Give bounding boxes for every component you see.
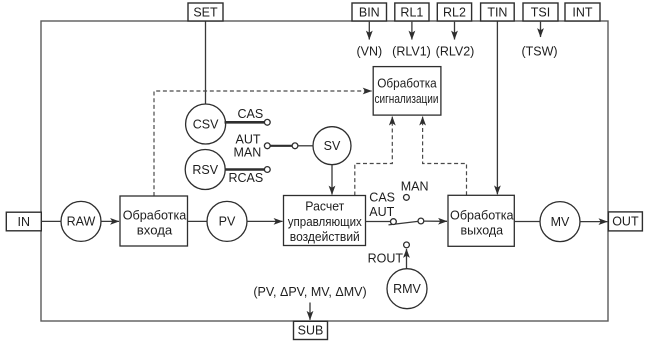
terminal box BIN (352, 3, 387, 21)
svg-text:MAN: MAN (234, 146, 262, 160)
wire pole to SV (298, 145, 313, 147)
svg-text:TIN: TIN (487, 5, 507, 19)
svg-text:RCAS: RCAS (229, 171, 264, 185)
svg-text:CAS: CAS (369, 190, 395, 204)
svg-text:Обработка: Обработка (377, 76, 437, 91)
arrow RMV to ROUT contact (406, 249, 408, 269)
switch wiper (upper, engaged AUT/MAN) (270, 145, 292, 147)
svg-text:(PV, ΔPV, MV, ΔMV): (PV, ΔPV, MV, ΔMV) (253, 285, 366, 299)
svg-text:SV: SV (324, 139, 341, 153)
terminal box TIN (481, 3, 515, 21)
terminal box RL2 (437, 3, 471, 21)
svg-text:SUB: SUB (298, 324, 324, 338)
svg-text:MV: MV (551, 215, 570, 229)
svg-text:RL2: RL2 (443, 5, 466, 19)
svg-text:(RLV1): (RLV1) (392, 44, 431, 58)
svg-text:PV: PV (219, 215, 236, 229)
block: input processing (Обработка входа) (120, 196, 188, 246)
circle RSV (185, 150, 225, 190)
svg-text:Расчет: Расчет (305, 198, 344, 213)
switch pole (upper) (292, 143, 298, 149)
svg-text:сигнализации: сигнализации (375, 91, 439, 106)
arrow BIN to (VN) (368, 22, 370, 40)
svg-text:TSI: TSI (531, 5, 550, 19)
arrow RL1 to (RLV1) (411, 22, 413, 40)
dashed wire control-calc to alarm-processing (355, 117, 393, 196)
svg-text:RMV: RMV (393, 282, 421, 296)
dashed wire output-processing to alarm-processing (423, 117, 467, 196)
switch pole (lower) (418, 218, 424, 224)
svg-text:ROUT: ROUT (368, 251, 404, 265)
outer block border (41, 21, 608, 321)
arrow RAW to input-processing (101, 220, 119, 222)
terminal box TSI (523, 3, 558, 21)
svg-text:IN: IN (18, 215, 31, 229)
circle CSV (186, 104, 226, 144)
arrow MV to OUT (580, 221, 607, 223)
svg-text:RAW: RAW (67, 215, 96, 229)
contact RCAS (264, 167, 270, 173)
terminal box SUB (294, 321, 328, 339)
wire output-processing to MV (514, 221, 540, 223)
arrow SV to control-calc (331, 165, 333, 195)
contact MAN (lower switch) (404, 195, 410, 201)
circle RAW (61, 201, 101, 241)
contact AUT/MAN (264, 143, 270, 149)
svg-text:Обработка: Обработка (450, 208, 514, 223)
arrow TSI to (TSW) (540, 22, 542, 37)
wire CSV to CAS contact (thick) (225, 121, 265, 124)
wire input-processing to PV (188, 220, 208, 222)
svg-text:управляющих: управляющих (288, 214, 362, 229)
circle RMV (387, 269, 427, 309)
circle SV (313, 127, 351, 165)
svg-text:SET: SET (193, 5, 218, 19)
svg-text:(TSW): (TSW) (521, 44, 557, 58)
svg-text:RL1: RL1 (400, 5, 423, 19)
svg-text:INT: INT (572, 5, 593, 19)
svg-text:Обработка: Обработка (123, 208, 187, 223)
svg-text:(RLV2): (RLV2) (436, 44, 475, 58)
circle MV (540, 202, 580, 242)
svg-text:CSV: CSV (193, 117, 219, 131)
block: output processing (Обработка выхода) (448, 195, 514, 246)
wire TIN down to output processing (arrow) (496, 21, 498, 194)
wire SET to CSV (205, 21, 207, 105)
terminal box RL1 (395, 3, 429, 21)
switch wiper (lower, engaged AUT) (389, 221, 421, 225)
contact CAS (264, 119, 270, 125)
terminal box IN (6, 212, 41, 231)
dashed wire input-processing to alarm-processing (154, 91, 372, 196)
arrow RL2 to (RLV2) (454, 22, 456, 40)
circle PV (207, 201, 247, 241)
wire IN to RAW (41, 220, 61, 222)
svg-text:CAS: CAS (238, 107, 264, 121)
wire control-calc to AUT contact (366, 221, 391, 223)
svg-text:RSV: RSV (192, 163, 218, 177)
terminal box OUT (608, 212, 642, 231)
svg-text:AUT: AUT (236, 132, 261, 146)
arrow to SUB (309, 303, 311, 320)
svg-text:входа: входа (137, 223, 173, 238)
svg-text:выхода: выхода (461, 223, 504, 238)
arrow PV to control-calc (247, 220, 283, 222)
svg-text:(VN): (VN) (356, 44, 382, 58)
arrow pole to output-processing (424, 220, 447, 222)
terminal box INT (565, 3, 600, 21)
terminal box SET (188, 3, 223, 21)
svg-text:BIN: BIN (359, 5, 380, 19)
svg-text:AUT: AUT (369, 205, 394, 219)
svg-text:OUT: OUT (612, 215, 639, 229)
svg-text:MAN: MAN (401, 180, 429, 194)
svg-text:воздействий: воздействий (290, 229, 360, 244)
contact AUT (lower switch) (391, 219, 397, 225)
contact ROUT (lower switch) (404, 242, 410, 248)
block: control calculation (Расчет управляющих воздействий) (284, 196, 366, 246)
wire RSV to RCAS contact (thick) (225, 168, 265, 171)
block: alarm processing (Обработка сигнализации) (373, 67, 441, 116)
